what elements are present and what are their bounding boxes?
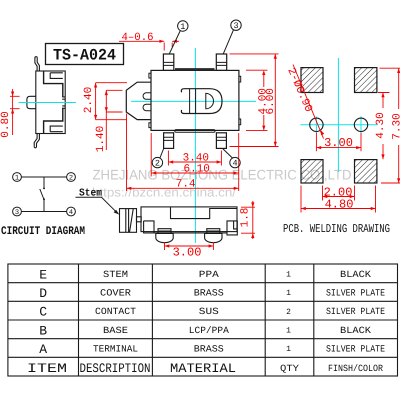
circuit diagram xyxy=(13,173,76,216)
side view (left) xyxy=(27,57,65,148)
table column 3 texts xyxy=(189,269,229,355)
svg-text:1.8: 1.8 xyxy=(240,208,252,228)
table column 4 texts xyxy=(286,271,291,355)
svg-text:SILVER PLATE: SILVER PLATE xyxy=(326,306,385,317)
svg-text:1.40: 1.40 xyxy=(95,126,107,152)
svg-text:https://bzcn.en.china.cn/: https://bzcn.en.china.cn/ xyxy=(92,185,237,199)
svg-text:SUS: SUS xyxy=(199,306,219,317)
svg-text:1: 1 xyxy=(286,327,291,336)
svg-text:3.00: 3.00 xyxy=(324,136,353,150)
front view (bottom center) xyxy=(120,207,238,243)
dimension 6.10 lines xyxy=(151,133,239,191)
svg-text:BASE: BASE xyxy=(103,325,128,336)
svg-text:CIRCUIT DIAGRAM: CIRCUIT DIAGRAM xyxy=(1,225,85,238)
svg-text:2.40: 2.40 xyxy=(83,87,95,113)
svg-text:BLACK: BLACK xyxy=(340,269,371,280)
dimension 1.40 lines xyxy=(106,90,122,150)
svg-text:BRASS: BRASS xyxy=(194,344,224,355)
side view bottom lid lines xyxy=(50,126,63,132)
dimension 3.00 xyxy=(165,242,214,250)
svg-text:A: A xyxy=(39,342,47,357)
switch contact dots xyxy=(43,187,45,189)
dimension 0.80 xyxy=(10,89,20,135)
circuit wire bottom xyxy=(21,211,66,213)
table column 1 texts xyxy=(27,267,67,376)
svg-text:1: 1 xyxy=(15,175,19,183)
svg-text:STEM: STEM xyxy=(103,269,128,280)
PCB pad bottom-left xyxy=(301,160,323,183)
svg-text:COVER: COVER xyxy=(100,288,131,299)
front view left foot xyxy=(158,229,171,234)
svg-text:1: 1 xyxy=(286,345,291,354)
side view top wire xyxy=(35,57,40,71)
top view stem xyxy=(126,82,151,119)
top view vertical centerline xyxy=(194,48,196,243)
svg-text:E: E xyxy=(39,267,47,282)
svg-text:2: 2 xyxy=(286,308,291,317)
dimensions of top view (red) xyxy=(96,41,279,191)
PCB welding drawing centerlines xyxy=(301,58,378,172)
svg-text:FINSH/COLOR: FINSH/COLOR xyxy=(328,363,383,374)
svg-text:4–0.6: 4–0.6 xyxy=(122,32,154,44)
svg-text:2: 2 xyxy=(69,175,73,183)
switch contact xyxy=(40,177,44,212)
side view bottom wire xyxy=(34,134,39,148)
front view base left block xyxy=(144,221,227,233)
side view cover seam top xyxy=(44,71,63,97)
dimension 4.30 xyxy=(378,93,390,160)
top view top slot (dark bar) xyxy=(175,68,215,70)
svg-text:PPA: PPA xyxy=(199,269,219,280)
parts table grid xyxy=(8,264,398,376)
PCB hole right xyxy=(354,118,367,131)
PCB pad top-right xyxy=(355,68,377,93)
front view base right block xyxy=(227,221,237,235)
svg-text:3: 3 xyxy=(233,21,238,31)
title box TS-A024 xyxy=(46,44,124,65)
front view cover seam xyxy=(171,207,238,219)
svg-text:TERMINAL: TERMINAL xyxy=(93,344,138,355)
svg-text:1: 1 xyxy=(286,289,291,298)
svg-text:BRASS: BRASS xyxy=(194,288,224,299)
svg-text:CONTACT: CONTACT xyxy=(95,306,136,317)
dimension 4.00 lines xyxy=(246,70,268,130)
side view stem bump xyxy=(27,96,36,108)
svg-text:D: D xyxy=(39,286,47,301)
top view leg bottom-right xyxy=(216,133,226,149)
top view leg top-right xyxy=(216,54,226,70)
dimension 2.40 lines xyxy=(96,83,127,120)
svg-text:6.10: 6.10 xyxy=(183,164,209,176)
top view bottom slot xyxy=(175,130,215,133)
dimension 4.80 xyxy=(301,186,376,213)
dimension 1.8 xyxy=(241,201,255,239)
svg-text:SILVER PLATE: SILVER PLATE xyxy=(326,344,385,355)
svg-text:2: 2 xyxy=(155,159,160,169)
balloon 1 xyxy=(169,21,188,54)
svg-text:BLACK: BLACK xyxy=(340,325,371,336)
dimension texts top view xyxy=(83,32,277,190)
svg-text:SILVER PLATE: SILVER PLATE xyxy=(326,288,385,299)
side view body xyxy=(36,71,65,134)
svg-text:4: 4 xyxy=(69,209,73,217)
top view corner jogs xyxy=(149,73,241,127)
side view right edge ticks xyxy=(62,97,65,108)
svg-text:6.00: 6.00 xyxy=(265,88,277,114)
front view stem connector xyxy=(137,217,142,222)
svg-text:4.80: 4.80 xyxy=(325,197,354,211)
top view leg top-left xyxy=(163,54,173,70)
svg-text:ITEM: ITEM xyxy=(27,361,67,376)
svg-text:QTY: QTY xyxy=(280,363,299,374)
svg-text:LCP/PPA: LCP/PPA xyxy=(189,325,229,336)
top view stem contact fingers xyxy=(143,93,151,111)
svg-text:4: 4 xyxy=(232,159,237,169)
dimension 7.30 xyxy=(380,68,400,183)
side view centerline xyxy=(19,102,77,104)
PCB hole left xyxy=(310,118,323,131)
Stem label underline and arrow xyxy=(76,197,118,213)
table column 2 texts xyxy=(93,269,138,355)
svg-text:MATERIAL: MATERIAL xyxy=(170,361,236,376)
balloon 3 xyxy=(223,20,241,54)
svg-text:C: C xyxy=(39,305,47,320)
svg-text:3.00: 3.00 xyxy=(173,246,202,260)
svg-text:3: 3 xyxy=(15,209,19,217)
PCB pad top-left xyxy=(301,68,323,93)
svg-text:PCB. WELDING DRAWING: PCB. WELDING DRAWING xyxy=(283,222,390,236)
front view body xyxy=(141,207,237,232)
circuit node digits xyxy=(15,175,73,218)
side view cover seam bottom xyxy=(44,108,63,134)
front view right foot xyxy=(207,229,220,234)
svg-text:7.30: 7.30 xyxy=(391,113,400,139)
top view D actuator bowl xyxy=(206,93,214,108)
dimension 2-diameter0.90 leader xyxy=(293,65,324,139)
circuit node 2 xyxy=(67,173,76,182)
top view body xyxy=(151,70,239,130)
top view D actuator outer xyxy=(181,89,222,114)
balloon 4 xyxy=(223,149,241,168)
circuit node 3 xyxy=(13,207,22,216)
balloon 2 xyxy=(152,149,164,168)
PCB pad bottom-right xyxy=(355,160,377,183)
dimension 6.00 lines xyxy=(230,54,279,147)
circuit node 4 xyxy=(67,207,76,216)
svg-text:7.4: 7.4 xyxy=(176,178,196,190)
svg-text:DESCRIPTION: DESCRIPTION xyxy=(80,361,151,376)
svg-text:TS-A024: TS-A024 xyxy=(53,47,116,65)
svg-text:0.80: 0.80 xyxy=(0,111,12,137)
side view top lid lines xyxy=(50,73,63,79)
circuit node 1 xyxy=(13,173,22,182)
top view leg bottom-left xyxy=(164,133,174,149)
svg-text:B: B xyxy=(39,323,47,338)
circuit wire top xyxy=(21,176,66,178)
top view D actuator inner line xyxy=(190,89,196,114)
dimension 4-0.6 lines xyxy=(119,41,179,50)
dimension 7.4 lines xyxy=(127,114,239,192)
arrowheads for top view dims xyxy=(94,40,277,190)
top view horizontal centerline xyxy=(131,100,256,102)
dimension 3.00 (pcb) xyxy=(316,133,361,151)
top view xyxy=(126,54,240,148)
dimension 3.40 lines xyxy=(168,151,221,166)
table column 5 texts xyxy=(326,269,385,374)
svg-text:1: 1 xyxy=(180,22,185,32)
svg-text:4.30: 4.30 xyxy=(375,112,387,138)
svg-text:1: 1 xyxy=(286,271,291,280)
front view stem xyxy=(120,209,137,233)
dimension 2.00 (pcb) xyxy=(323,186,355,201)
